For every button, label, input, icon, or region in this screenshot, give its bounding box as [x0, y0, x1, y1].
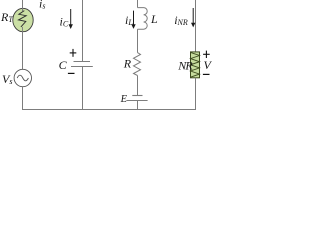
- svg-text:C: C: [59, 58, 68, 72]
- minus sign NR: [203, 73, 210, 75]
- wire left branch bottom: [22, 87, 24, 110]
- wire L branch bottom: [137, 101, 139, 110]
- current arrow iL: [133, 11, 135, 27]
- thermistor RT zigzag: [19, 11, 27, 27]
- battery E short plate: [132, 95, 142, 97]
- resistor R zigzag: [134, 53, 141, 76]
- battery E long plate: [127, 100, 148, 102]
- svg-text:iC: iC: [60, 15, 69, 29]
- plus sign NR: [203, 53, 210, 55]
- current arrow iNR: [192, 8, 194, 25]
- minus sign C: [68, 72, 75, 74]
- plus sign C: [70, 52, 77, 54]
- svg-text:is: is: [39, 0, 45, 11]
- current arrow iC: [70, 9, 72, 27]
- svg-text:NR: NR: [177, 59, 193, 73]
- nonlinear resistor NR zigzag: [191, 52, 200, 77]
- wire C branch bottom: [82, 67, 84, 110]
- wire RT bottom stub: [22, 27, 24, 32]
- wire NR branch bottom: [195, 78, 197, 110]
- svg-text:E: E: [120, 94, 128, 105]
- wire C branch top: [82, 0, 84, 62]
- wire L branch middle: [137, 29, 139, 52]
- capacitor C bottom plate: [71, 66, 93, 68]
- svg-text:iL: iL: [125, 13, 133, 27]
- wire L branch top: [137, 0, 139, 8]
- inductor L coil: [138, 8, 148, 30]
- wire NR branch top: [195, 0, 197, 52]
- wire left branch top: [22, 0, 24, 11]
- source Vs sine: [17, 75, 28, 81]
- thermistor RT circle: [13, 8, 33, 31]
- bottom wire: [22, 109, 196, 111]
- svg-text:iNR: iNR: [174, 13, 188, 27]
- source Vs circle: [14, 69, 31, 86]
- capacitor C top plate: [74, 61, 91, 63]
- svg-text:RT: RT: [0, 10, 13, 24]
- wire L branch lower: [137, 76, 139, 96]
- svg-text:L: L: [150, 12, 158, 26]
- svg-text:R: R: [123, 57, 132, 71]
- wire left branch middle: [22, 32, 24, 70]
- nonlinear resistor NR box: [191, 52, 200, 78]
- svg-text:V: V: [204, 58, 213, 72]
- svg-text:Vs: Vs: [2, 72, 12, 86]
